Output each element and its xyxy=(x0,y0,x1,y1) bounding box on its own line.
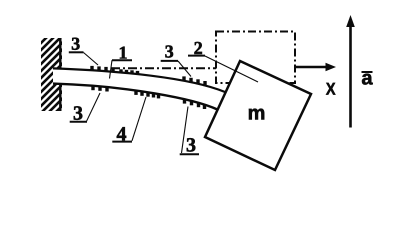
neutral axis dash-dot line xyxy=(111,67,216,69)
leader line for top-middle 3 xyxy=(178,61,191,77)
label 3 top-middle xyxy=(161,45,178,60)
leader line for 2 into the mass xyxy=(205,56,258,82)
label 1 xyxy=(112,47,132,61)
label a-bar (acceleration) xyxy=(362,72,373,85)
label 3 top-left xyxy=(69,38,84,53)
label 3 bottom-right xyxy=(180,138,199,154)
leader line for top-left 3 xyxy=(84,53,99,66)
leader line for bottom-left 3 xyxy=(87,93,101,121)
label 3 bottom-left xyxy=(70,106,87,121)
wall: hatched fixed support xyxy=(41,38,62,111)
leader line for 1 xyxy=(110,60,113,78)
leader line for bottom-right 3 xyxy=(182,107,189,154)
piezo elements 3: ticks on upper surface xyxy=(90,66,206,86)
arrow X: horizontal axis arrow xyxy=(295,63,337,72)
dash-dot rectangle 2: undeflected mass outline xyxy=(216,32,295,84)
label m inside mass xyxy=(249,109,264,120)
label 4 xyxy=(112,127,132,141)
label X xyxy=(326,83,335,95)
piezo elements 3: ticks on lower surface xyxy=(91,85,206,109)
beam upper surface line (layer 1) xyxy=(53,68,225,92)
mass m: tilted square xyxy=(205,61,311,170)
beam body: bimorph cantilever (white fill) xyxy=(53,68,225,109)
beam lower surface line (layer 4) xyxy=(53,84,217,110)
arrow a: vertical acceleration arrow xyxy=(346,15,355,128)
label 2 xyxy=(188,42,205,56)
leader line for 4 xyxy=(132,97,146,141)
